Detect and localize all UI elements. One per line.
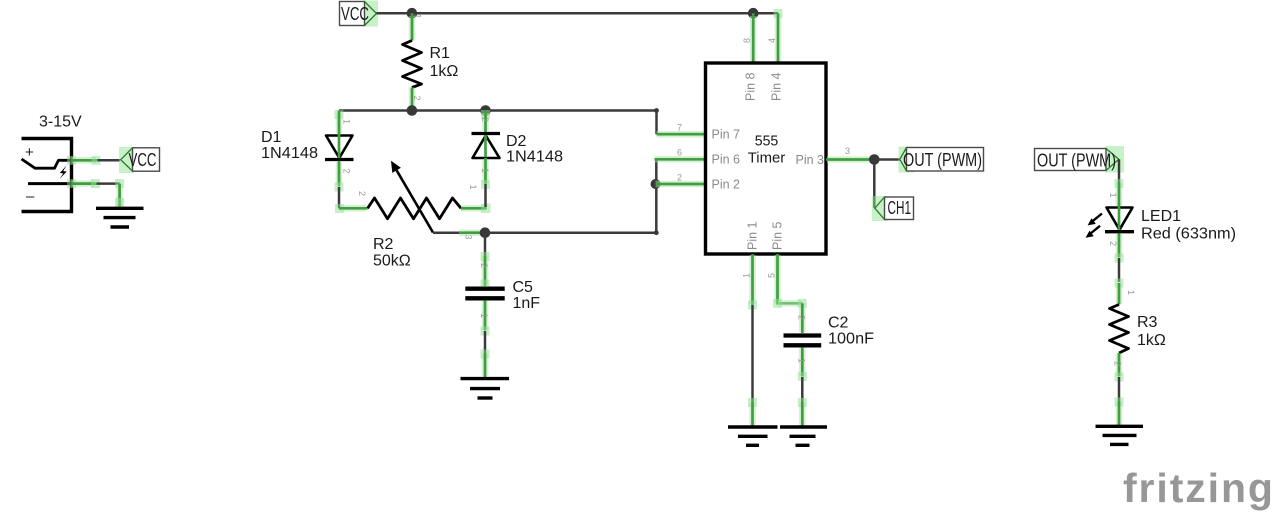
svg-text:100nF: 100nF bbox=[828, 331, 874, 348]
wire R1 pin1 lead bbox=[409, 13, 416, 40]
svg-text:1: 1 bbox=[342, 119, 352, 124]
pin number 2 of LED1 bbox=[1108, 241, 1118, 246]
svg-text:1: 1 bbox=[797, 358, 807, 363]
wire R2 pin2 lead (left) bbox=[335, 204, 368, 213]
svg-text:2: 2 bbox=[677, 173, 682, 183]
svg-text:1kΩ: 1kΩ bbox=[1137, 332, 1166, 349]
svg-text:Pin 7: Pin 7 bbox=[712, 128, 741, 142]
svg-text:fritzing: fritzing bbox=[1123, 465, 1275, 511]
power connector J1 bbox=[22, 137, 74, 213]
label D1 1N4148 bbox=[261, 129, 318, 162]
pin number 1 of R2 bbox=[468, 185, 478, 190]
svg-text:Pin 6: Pin 6 bbox=[712, 153, 741, 167]
svg-text:CH1: CH1 bbox=[888, 198, 912, 218]
svg-text:Red (633nm): Red (633nm) bbox=[1141, 226, 1236, 243]
wire 555 pin 8 bbox=[750, 13, 757, 62]
wire C5 bottom lead bbox=[481, 300, 490, 377]
svg-text:6: 6 bbox=[677, 148, 682, 158]
pin number 2 of C5 bbox=[479, 263, 489, 268]
pin number 1 of R1 bbox=[413, 14, 423, 19]
wire C2 top lead bbox=[799, 303, 806, 333]
svg-text:–: – bbox=[26, 188, 35, 205]
ground (power) bbox=[96, 208, 144, 227]
wire R1 pin2 lead bbox=[409, 88, 416, 111]
wire VCC rail (top) bbox=[377, 12, 779, 15]
pin number 2 of C2 bbox=[797, 315, 807, 320]
svg-text:50kΩ: 50kΩ bbox=[373, 253, 411, 270]
label C2 100nF bbox=[828, 315, 874, 348]
svg-text:1kΩ: 1kΩ bbox=[430, 63, 459, 80]
svg-text:2: 2 bbox=[357, 191, 367, 196]
svg-text:5: 5 bbox=[767, 273, 777, 278]
svg-text:Pin 4: Pin 4 bbox=[770, 72, 784, 101]
svg-text:VCC: VCC bbox=[341, 4, 369, 24]
diode D2 cathode bar bbox=[472, 132, 501, 135]
junction node R1/rail bbox=[407, 105, 418, 116]
wire wiper node to 555 bbox=[485, 159, 656, 232]
ground (pin 1) bbox=[728, 427, 778, 445]
label 3-15V bbox=[39, 114, 82, 131]
svg-text:D1: D1 bbox=[261, 129, 282, 146]
svg-text:8: 8 bbox=[742, 38, 752, 43]
svg-text:Pin 2: Pin 2 bbox=[712, 177, 741, 191]
potentiometer R2 body bbox=[368, 198, 462, 219]
pin number 1 of C5 bbox=[479, 313, 489, 318]
wire 555 pin 3 output bbox=[826, 156, 874, 163]
svg-text:2: 2 bbox=[342, 169, 352, 174]
svg-text:C2: C2 bbox=[828, 315, 849, 332]
wire C2 bottom lead bbox=[798, 347, 807, 426]
junction node D2/rail bbox=[480, 105, 491, 116]
pin number 2 of D2 bbox=[480, 117, 490, 122]
pin number 7 bbox=[677, 123, 682, 133]
svg-text:1: 1 bbox=[479, 313, 489, 318]
junction node pin2 branch bbox=[651, 179, 661, 189]
svg-text:1: 1 bbox=[480, 168, 490, 173]
net label OUT (PWM) left bbox=[899, 147, 984, 173]
svg-text:1N4148: 1N4148 bbox=[261, 145, 318, 162]
svg-text:Pin 8: Pin 8 bbox=[744, 72, 758, 101]
ground (R3) bbox=[1096, 426, 1144, 444]
net label OUT (PWM) right bbox=[1035, 146, 1125, 173]
wire LED1 to R3 bbox=[1115, 234, 1124, 305]
svg-text:VCC: VCC bbox=[129, 150, 157, 170]
wire R3 to ground bbox=[1115, 353, 1124, 426]
wire 555 pin 2 bbox=[656, 181, 707, 188]
pin number 8 bbox=[742, 38, 752, 43]
svg-text:LED1: LED1 bbox=[1141, 208, 1181, 225]
svg-text:R1: R1 bbox=[430, 45, 451, 62]
node end at pin7 branch bbox=[654, 108, 659, 113]
wire D1 pin2 lead bbox=[335, 161, 344, 208]
wire 555 pin 7 branch bbox=[657, 111, 707, 135]
pin label Pin 6 bbox=[712, 153, 741, 167]
diode D2 body bbox=[473, 136, 500, 159]
ground (C2) bbox=[780, 427, 827, 445]
svg-text:3: 3 bbox=[464, 235, 474, 240]
svg-text:3: 3 bbox=[845, 146, 850, 156]
svg-text:4: 4 bbox=[767, 38, 777, 43]
svg-text:1nF: 1nF bbox=[513, 295, 541, 312]
wire 555 pin 4 bbox=[774, 9, 783, 63]
svg-text:R2: R2 bbox=[373, 236, 394, 253]
pin number 1 of C2 bbox=[797, 358, 807, 363]
svg-text:2: 2 bbox=[412, 96, 422, 101]
pin label Pin 3 bbox=[796, 153, 825, 167]
svg-text:1: 1 bbox=[742, 273, 752, 278]
op-amp U1 555 timer body bbox=[706, 63, 827, 254]
svg-text:555: 555 bbox=[755, 133, 779, 150]
wire D1 pin1 lead bbox=[335, 110, 344, 159]
pin number 2 of R2 bbox=[357, 191, 367, 196]
svg-text:+: + bbox=[25, 144, 34, 161]
pin label Pin 1 bbox=[746, 221, 760, 250]
junction node output bbox=[869, 154, 880, 165]
wire to OUT label bbox=[874, 158, 900, 161]
svg-text:OUT (PWM): OUT (PWM) bbox=[903, 150, 982, 170]
svg-text:3-15V: 3-15V bbox=[39, 114, 82, 131]
pin number 4 bbox=[767, 38, 777, 43]
wire 555 pin 1 to ground bbox=[748, 254, 757, 426]
pin label Pin 4 bbox=[770, 72, 784, 101]
wire C5 top lead bbox=[481, 233, 490, 289]
wire OUT to LED1 bbox=[1115, 159, 1124, 231]
wire to CH1 label bbox=[873, 160, 876, 208]
value label R1 1kΩ bbox=[430, 45, 459, 80]
pin number 2 of D1 bbox=[342, 169, 352, 174]
wire 555 pin 6 bbox=[655, 156, 707, 163]
LED LED1 cathode bar and arrows bbox=[1086, 214, 1134, 238]
pin number 1 of D1 bbox=[342, 119, 352, 124]
fritzing logo bbox=[1123, 465, 1275, 511]
wire D2 pin1 lead (bottom) bbox=[481, 158, 490, 207]
svg-text:D2: D2 bbox=[506, 133, 527, 150]
wire minus to ground bbox=[67, 179, 124, 207]
label R3 1kΩ bbox=[1137, 314, 1166, 349]
svg-text:1: 1 bbox=[468, 185, 478, 190]
pin number 1 of D2 bbox=[480, 168, 490, 173]
resistor R1 bbox=[403, 41, 422, 88]
wire R2 wiper lead bbox=[433, 231, 482, 234]
svg-text:Pin 3: Pin 3 bbox=[796, 153, 825, 167]
pin label Pin 2 bbox=[712, 177, 741, 191]
svg-text:7: 7 bbox=[677, 123, 682, 133]
junction node at R1 top bbox=[407, 8, 418, 19]
net label VCC (left) bbox=[119, 147, 160, 173]
svg-text:C5: C5 bbox=[513, 279, 534, 296]
pin number 2 of R1 bbox=[412, 96, 422, 101]
label C5 1nF bbox=[513, 279, 541, 312]
svg-text:Pin 1: Pin 1 bbox=[746, 221, 760, 250]
pin number 3 of R2 bbox=[464, 235, 474, 240]
svg-text:1: 1 bbox=[1108, 193, 1118, 198]
pin number 5 bbox=[767, 273, 777, 278]
label LED1 Red (633nm) bbox=[1141, 208, 1236, 243]
pin number 2 bbox=[677, 173, 682, 183]
pin label Pin 5 bbox=[771, 221, 785, 250]
svg-text:OUT (PWM): OUT (PWM) bbox=[1037, 150, 1116, 170]
LED LED1 body bbox=[1107, 208, 1133, 230]
svg-text:1: 1 bbox=[413, 14, 423, 19]
junction node at pin 8 bbox=[748, 8, 759, 19]
junction node R2 wiper / C5 bbox=[480, 227, 491, 238]
svg-text:2: 2 bbox=[797, 315, 807, 320]
label R2 50kΩ bbox=[373, 236, 411, 270]
potentiometer R2 wiper arrow bbox=[391, 161, 433, 233]
pin number 1 of R3 bbox=[1126, 290, 1136, 295]
wire 555 pin 5 to C2 bbox=[773, 254, 807, 308]
svg-text:2: 2 bbox=[479, 263, 489, 268]
pin label Pin 8 bbox=[744, 72, 758, 101]
diode D1 cathode bar bbox=[325, 158, 354, 161]
wire plus to VCC label bbox=[67, 156, 120, 165]
pin label Pin 7 bbox=[712, 128, 741, 142]
label D2 1N4148 bbox=[506, 133, 563, 166]
wire D2 pin2 lead (top) bbox=[481, 110, 490, 157]
ground (C5) bbox=[461, 379, 510, 398]
net label CH1 bbox=[872, 196, 914, 221]
capacitor C5 bbox=[465, 289, 504, 299]
svg-text:2: 2 bbox=[480, 117, 490, 122]
svg-text:1N4148: 1N4148 bbox=[506, 149, 563, 166]
svg-text:Timer: Timer bbox=[748, 150, 786, 167]
pin number 3 bbox=[845, 146, 850, 156]
svg-text:2: 2 bbox=[1113, 361, 1123, 366]
svg-text:2: 2 bbox=[1108, 241, 1118, 246]
label 555 Timer bbox=[748, 133, 786, 167]
pin number 1 bbox=[742, 273, 752, 278]
pin number 6 bbox=[677, 148, 682, 158]
net label VCC (top) bbox=[340, 1, 379, 27]
node corner bbox=[654, 230, 659, 235]
pin number 2 of R3 bbox=[1113, 361, 1123, 366]
svg-text:Pin 5: Pin 5 bbox=[771, 221, 785, 250]
svg-text:1: 1 bbox=[1126, 290, 1136, 295]
svg-text:R3: R3 bbox=[1137, 314, 1158, 331]
diode D1 body bbox=[326, 136, 353, 159]
wire mid rail (diode node) bbox=[339, 109, 657, 112]
capacitor C2 bbox=[784, 336, 822, 346]
wire R2 pin1 lead (right) bbox=[461, 204, 491, 214]
resistor R3 bbox=[1110, 305, 1129, 354]
pin number 1 of LED1 bbox=[1108, 193, 1118, 198]
